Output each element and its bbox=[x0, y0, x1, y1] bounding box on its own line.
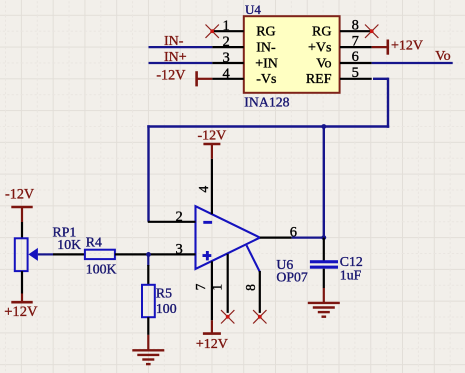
node junction at op-amp pin 3 bbox=[146, 252, 151, 257]
U6 pin 3 (non-inverting input) bbox=[149, 241, 196, 257]
svg-text:100: 100 bbox=[156, 301, 177, 316]
no-connect X on U6 pin 8 bbox=[253, 310, 266, 323]
value 100 bbox=[156, 301, 177, 316]
svg-text:OP07: OP07 bbox=[276, 269, 308, 284]
op-amp U6 triangle bbox=[196, 206, 260, 269]
svg-text:8: 8 bbox=[352, 17, 359, 33]
svg-text:RG: RG bbox=[256, 25, 275, 40]
wire IN- bbox=[149, 46, 213, 48]
svg-text:+Vs: +Vs bbox=[308, 41, 331, 56]
wire bus down to op-amp pin 2 bbox=[147, 125, 149, 222]
svg-text:IN-: IN- bbox=[164, 34, 184, 49]
svg-text:5: 5 bbox=[352, 65, 359, 81]
U6 pin 7 (V+) bbox=[193, 261, 212, 320]
U4 pin 8 bbox=[340, 17, 372, 33]
no-connect X on U4 pin 1 bbox=[206, 25, 219, 38]
svg-text:-12V: -12V bbox=[5, 186, 35, 202]
svg-text:INA128: INA128 bbox=[244, 95, 289, 110]
svg-text:+12V: +12V bbox=[4, 304, 38, 320]
svg-text:8: 8 bbox=[243, 284, 258, 291]
svg-text:RG: RG bbox=[312, 25, 331, 40]
wire Vo bbox=[372, 62, 453, 64]
svg-text:3: 3 bbox=[176, 241, 183, 257]
no-connect X on U6 pin 1 bbox=[221, 310, 234, 323]
U6 pin 2 (inverting input) bbox=[148, 209, 196, 225]
net label IN+ bbox=[164, 50, 187, 65]
net label IN- bbox=[164, 34, 184, 49]
svg-text:R5: R5 bbox=[156, 285, 172, 300]
svg-text:+IN: +IN bbox=[255, 56, 278, 71]
svg-text:+12V: +12V bbox=[196, 337, 228, 352]
svg-text:-12V: -12V bbox=[156, 67, 186, 83]
node output junction bbox=[321, 235, 326, 240]
svg-text:3: 3 bbox=[223, 50, 230, 66]
svg-text:4: 4 bbox=[196, 186, 211, 193]
value 1uF bbox=[340, 267, 362, 282]
wire IN+ bbox=[149, 62, 213, 64]
designator RP1 bbox=[53, 225, 77, 240]
svg-text:Vo: Vo bbox=[316, 56, 331, 71]
svg-text:2: 2 bbox=[223, 34, 230, 50]
U6 pin 6 (output) bbox=[260, 225, 297, 241]
svg-text:Vo: Vo bbox=[435, 49, 450, 64]
U6 pin 4 (V-) bbox=[196, 159, 212, 214]
U6 pin 8 (offset) bbox=[243, 245, 260, 313]
U4 pin 4 bbox=[212, 66, 244, 82]
svg-text:2: 2 bbox=[176, 209, 183, 225]
svg-text:7: 7 bbox=[193, 283, 208, 290]
svg-text:REF: REF bbox=[306, 72, 332, 87]
designator U4 bbox=[245, 2, 261, 17]
net label Vo bbox=[435, 49, 450, 64]
svg-text:IN+: IN+ bbox=[164, 50, 187, 65]
IC U4 INA128 body bbox=[244, 16, 340, 93]
designator U6 bbox=[276, 257, 293, 272]
U4 pin 7 bbox=[340, 33, 372, 49]
svg-text:6: 6 bbox=[352, 49, 359, 65]
ground below R5 bbox=[132, 335, 164, 364]
power +12V at U6 pin 7 bbox=[196, 320, 228, 352]
svg-text:R4: R4 bbox=[86, 234, 102, 249]
wire output to junction bbox=[292, 237, 324, 239]
designator C12 bbox=[340, 254, 363, 269]
U4 pin 3 bbox=[212, 50, 244, 66]
U6 pin 1 (offset) bbox=[210, 254, 228, 313]
wire wiper to R4 bbox=[38, 253, 53, 255]
designator R4 bbox=[86, 234, 102, 249]
svg-text:1: 1 bbox=[223, 18, 230, 34]
no-connect X on U4 pin 8 bbox=[365, 25, 378, 38]
capacitor C12 bbox=[310, 238, 338, 288]
designator R5 bbox=[156, 285, 172, 300]
resistor R4 bbox=[53, 250, 149, 259]
U4 pin 2 bbox=[212, 34, 244, 50]
svg-text:1: 1 bbox=[210, 284, 225, 291]
U4 pin 5 bbox=[340, 65, 372, 81]
svg-text:100K: 100K bbox=[86, 261, 117, 276]
value 10K bbox=[57, 237, 81, 252]
power -12V at RP1 bbox=[5, 186, 35, 222]
svg-text:10K: 10K bbox=[57, 237, 81, 252]
value OP07 bbox=[276, 269, 308, 284]
U4 pin 6 bbox=[340, 49, 372, 65]
U4 pin 1 bbox=[212, 18, 244, 34]
svg-text:4: 4 bbox=[223, 66, 231, 82]
svg-text:-12V: -12V bbox=[198, 128, 227, 143]
value 100K bbox=[86, 261, 117, 276]
wire REF feedback bbox=[147, 78, 389, 128]
ground below C12 bbox=[308, 288, 340, 317]
wire junction column bbox=[323, 127, 325, 238]
potentiometer RP1 bbox=[15, 222, 38, 294]
svg-text:1uF: 1uF bbox=[340, 267, 362, 282]
value INA128 bbox=[244, 95, 289, 110]
svg-text:U4: U4 bbox=[245, 2, 261, 17]
svg-text:7: 7 bbox=[352, 33, 359, 49]
svg-text:IN-: IN- bbox=[256, 41, 276, 56]
power -12V at U6 pin 4 bbox=[198, 128, 227, 158]
node junction on feedback bus bbox=[321, 124, 326, 129]
power +12V at U4 pin 7 bbox=[372, 39, 423, 55]
power +12V at RP1 bbox=[4, 294, 38, 320]
resistor R5 bbox=[142, 254, 155, 335]
svg-text:+12V: +12V bbox=[391, 39, 423, 54]
svg-text:-Vs: -Vs bbox=[256, 72, 276, 87]
power -12V at U4 pin 4 bbox=[156, 67, 212, 86]
